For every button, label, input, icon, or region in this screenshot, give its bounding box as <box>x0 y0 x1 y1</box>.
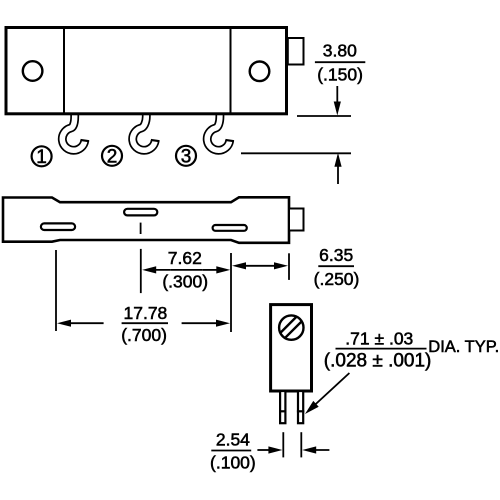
plan view middle slot <box>124 209 157 216</box>
dim 3.80 down arrow <box>334 86 341 116</box>
dim .71 fraction line <box>336 348 427 350</box>
plan view left slot <box>41 223 75 230</box>
pin 3 hook <box>207 112 234 150</box>
dim 2.54 left arrow <box>257 446 282 453</box>
svg-text:2.54: 2.54 <box>216 429 250 449</box>
extension line body bottom <box>297 115 351 117</box>
extension line slot1 center <box>55 250 57 331</box>
dim 7.62 left arrow <box>142 266 171 273</box>
extension line bar right end <box>288 253 290 280</box>
extension line middle slot center <box>140 249 142 293</box>
svg-text:3.80: 3.80 <box>323 41 357 61</box>
extension line left leg <box>282 432 284 457</box>
dim 17.78 fraction line <box>122 322 168 324</box>
svg-text:(.100): (.100) <box>210 453 256 473</box>
pin label 3 <box>176 146 196 168</box>
svg-text:(.300): (.300) <box>162 271 208 291</box>
svg-text:17.78: 17.78 <box>124 303 168 323</box>
adjustment screw <box>279 315 303 339</box>
dim 2.54 right arrow <box>302 446 329 453</box>
dim 17.78 left arrow <box>57 320 104 327</box>
dim 3.80 fraction line <box>315 61 365 63</box>
svg-text:.71 ± .03: .71 ± .03 <box>345 329 413 349</box>
pin label 2 <box>102 146 122 168</box>
dim 6.35 shaft <box>243 265 277 267</box>
plan view tab <box>289 209 304 231</box>
pin 2 hook <box>133 112 160 150</box>
dim 7.62 right arrow <box>203 266 231 273</box>
dim 3.80 up arrow <box>334 153 341 184</box>
dim 6.35 left arrow <box>232 262 246 269</box>
front view left divider <box>63 29 65 113</box>
front view side tab <box>288 38 304 65</box>
svg-text:1: 1 <box>36 147 47 168</box>
left leg <box>279 391 287 423</box>
dim 2.54 fraction line <box>211 450 251 452</box>
svg-text:3: 3 <box>181 147 192 168</box>
extension line right leg <box>300 432 302 457</box>
right mounting hole <box>250 62 270 82</box>
extension line right slot center <box>230 253 232 332</box>
svg-text:2: 2 <box>107 147 118 168</box>
svg-text:(.700): (.700) <box>121 325 167 345</box>
front view right divider <box>230 29 232 113</box>
svg-text:(.150): (.150) <box>317 65 363 85</box>
centerline dash middle slot <box>140 223 142 234</box>
svg-text:7.62: 7.62 <box>168 248 202 268</box>
svg-text:6.35: 6.35 <box>319 245 353 265</box>
plan view right slot <box>213 225 247 231</box>
front view body <box>6 28 287 114</box>
dim 17.78 right arrow <box>182 320 230 327</box>
pin label 1 <box>32 146 52 168</box>
svg-text:(.250): (.250) <box>314 269 360 289</box>
right leg <box>297 391 304 423</box>
plan view body outline <box>3 197 289 243</box>
end view body <box>271 305 312 391</box>
pin 1 hook <box>62 112 89 150</box>
left mounting hole <box>23 61 43 81</box>
extension line hook bottom <box>241 152 351 154</box>
leader arrow to leg <box>305 373 349 414</box>
dim 6.35 fraction line <box>318 265 354 267</box>
svg-text:DIA. TYP.: DIA. TYP. <box>428 338 499 356</box>
svg-text:(.028 ± .001): (.028 ± .001) <box>324 350 432 371</box>
dim 7.62 fraction line <box>171 269 203 271</box>
dim 6.35 right arrow <box>274 262 288 269</box>
